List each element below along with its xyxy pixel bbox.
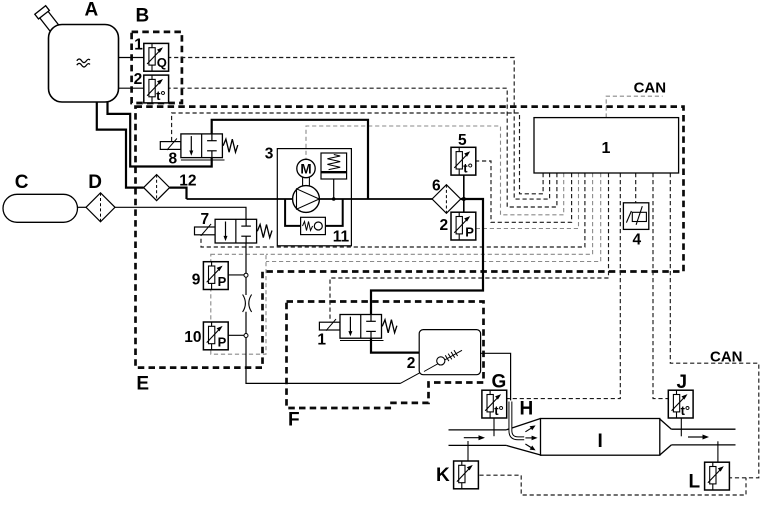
svg-text:1: 1 (602, 140, 611, 157)
svg-text:CAN: CAN (634, 80, 667, 97)
svg-text:P: P (465, 225, 474, 240)
svg-text:B: B (136, 6, 150, 27)
svg-text:D: D (88, 172, 102, 193)
svg-text:6: 6 (432, 178, 441, 195)
svg-text:3: 3 (265, 146, 274, 163)
svg-text:12: 12 (179, 173, 196, 190)
svg-text:P: P (218, 334, 227, 349)
svg-text:2: 2 (134, 71, 143, 88)
svg-text:1: 1 (134, 37, 143, 54)
svg-text:CAN: CAN (710, 349, 743, 366)
svg-text:8: 8 (169, 151, 178, 168)
svg-text:2: 2 (407, 355, 416, 372)
svg-text:L: L (689, 472, 701, 493)
svg-text:G: G (492, 372, 507, 393)
svg-text:11: 11 (333, 229, 350, 246)
svg-text:I: I (598, 431, 603, 452)
svg-text:2: 2 (440, 217, 449, 234)
svg-text:t°: t° (156, 88, 166, 103)
svg-text:P: P (218, 274, 227, 289)
svg-text:1: 1 (317, 331, 326, 348)
svg-text:t°: t° (463, 160, 473, 175)
svg-text:H: H (520, 399, 534, 420)
svg-text:Q: Q (157, 55, 167, 70)
svg-text:4: 4 (633, 232, 642, 249)
svg-text:K: K (436, 465, 450, 486)
svg-text:F: F (288, 410, 300, 431)
svg-text:t°: t° (494, 403, 504, 418)
svg-text:5: 5 (458, 132, 467, 149)
svg-text:M: M (300, 161, 311, 176)
svg-text:E: E (136, 374, 149, 395)
svg-text:J: J (677, 372, 688, 393)
svg-text:7: 7 (201, 211, 210, 228)
svg-text:9: 9 (192, 271, 201, 288)
svg-text:t°: t° (681, 403, 691, 418)
svg-text:C: C (15, 172, 29, 193)
svg-text:10: 10 (184, 329, 201, 346)
svg-text:A: A (85, 0, 99, 21)
